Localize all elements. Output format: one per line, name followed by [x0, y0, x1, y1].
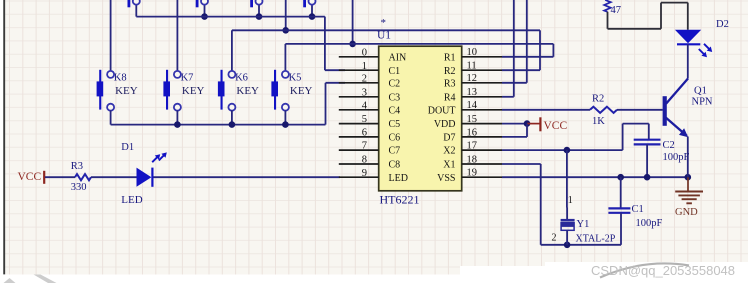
svg-text:GND: GND — [675, 207, 698, 218]
svg-text:KEY: KEY — [290, 85, 313, 97]
svg-text:R3: R3 — [444, 78, 456, 89]
svg-text:AIN: AIN — [389, 52, 407, 63]
svg-text:C2: C2 — [663, 140, 675, 151]
svg-text:R4: R4 — [444, 92, 456, 103]
svg-text:VCC: VCC — [544, 120, 568, 132]
svg-text:12: 12 — [467, 73, 478, 84]
svg-text:17: 17 — [467, 141, 478, 152]
svg-text:D2: D2 — [716, 19, 729, 30]
svg-text:0: 0 — [362, 47, 367, 58]
svg-text:U1: U1 — [377, 30, 391, 42]
svg-text:C4: C4 — [389, 105, 401, 116]
svg-text:KEY: KEY — [182, 85, 205, 97]
svg-text:6: 6 — [362, 128, 367, 139]
svg-text:19: 19 — [467, 168, 478, 179]
svg-text:13: 13 — [467, 87, 478, 98]
svg-text:1: 1 — [362, 61, 367, 72]
svg-text:K7: K7 — [181, 73, 194, 84]
svg-text:2: 2 — [362, 73, 367, 84]
svg-text:7: 7 — [362, 141, 367, 152]
svg-text:VDD: VDD — [434, 119, 456, 130]
svg-text:D7: D7 — [443, 133, 455, 144]
svg-text:CSDN@qq_2053558048: CSDN@qq_2053558048 — [591, 263, 735, 278]
svg-text:K5: K5 — [289, 73, 302, 84]
svg-text:15: 15 — [467, 114, 478, 125]
svg-text:8: 8 — [362, 155, 367, 166]
svg-text:3: 3 — [362, 87, 367, 98]
svg-text:KEY: KEY — [236, 85, 259, 97]
svg-text:14: 14 — [467, 100, 478, 111]
svg-text:R3: R3 — [71, 161, 83, 172]
svg-text:NPN: NPN — [692, 97, 713, 108]
svg-text:10: 10 — [467, 47, 478, 58]
svg-text:DOUT: DOUT — [428, 105, 456, 116]
svg-text:VSS: VSS — [437, 173, 455, 184]
svg-text:LED: LED — [121, 194, 142, 206]
svg-text:K6: K6 — [235, 73, 248, 84]
svg-text:4: 4 — [362, 100, 368, 111]
svg-text:KEY: KEY — [115, 85, 138, 97]
svg-text:1K: 1K — [592, 116, 605, 127]
svg-text:1: 1 — [568, 195, 573, 206]
svg-text:100pF: 100pF — [663, 152, 690, 163]
svg-text:C5: C5 — [389, 119, 401, 130]
svg-text:R2: R2 — [592, 93, 604, 104]
svg-text:C8: C8 — [389, 160, 401, 171]
svg-text:9: 9 — [362, 168, 367, 179]
svg-text:11: 11 — [467, 61, 477, 72]
svg-text:XTAL-2P: XTAL-2P — [576, 234, 616, 245]
svg-text:*: * — [381, 17, 387, 29]
svg-text:C3: C3 — [389, 92, 401, 103]
svg-text:HT6221: HT6221 — [380, 193, 420, 207]
svg-text:C1: C1 — [389, 66, 401, 77]
svg-text:K8: K8 — [114, 73, 127, 84]
svg-text:5: 5 — [362, 114, 367, 125]
svg-text:2: 2 — [552, 233, 557, 244]
svg-text:C7: C7 — [389, 146, 401, 157]
svg-text:R2: R2 — [444, 66, 456, 77]
svg-text:C6: C6 — [389, 133, 401, 144]
svg-text:VCC: VCC — [18, 171, 42, 183]
svg-text:C2: C2 — [389, 78, 401, 89]
svg-text:330: 330 — [71, 182, 87, 193]
svg-text:X1: X1 — [443, 160, 455, 171]
svg-text:R1: R1 — [444, 52, 456, 63]
svg-text:Q1: Q1 — [694, 85, 707, 96]
svg-text:X2: X2 — [443, 146, 455, 157]
svg-text:100pF: 100pF — [636, 218, 663, 229]
svg-text:47: 47 — [611, 5, 622, 16]
svg-text:D1: D1 — [121, 142, 134, 153]
svg-text:16: 16 — [467, 127, 478, 138]
svg-text:Y1: Y1 — [577, 219, 590, 230]
svg-text:18: 18 — [467, 154, 478, 165]
svg-text:LED: LED — [389, 173, 408, 184]
svg-text:C1: C1 — [632, 204, 644, 215]
